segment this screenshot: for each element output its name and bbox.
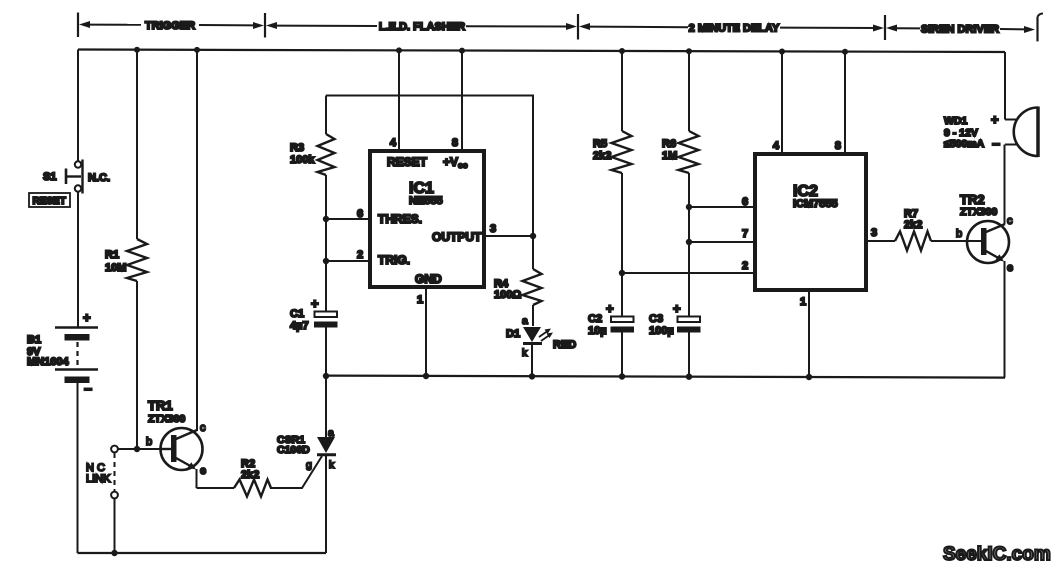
node R6 top [686,48,692,54]
svg-text:ZTX300: ZTX300 [148,413,186,425]
svg-text:OUTPUT: OUTPUT [432,230,482,244]
wire TR1 collector column [196,49,198,432]
svg-text:10M: 10M [105,262,126,274]
node R3/pin2 [323,258,329,264]
svg-text:10µ: 10µ [588,325,607,337]
svg-text:LINK: LINK [86,473,111,485]
svg-text:3: 3 [871,227,877,239]
svg-text:4: 4 [773,140,780,152]
node output junction [530,233,536,239]
wire S1 to battery [77,192,79,328]
svg-text:MN1604: MN1604 [27,356,69,368]
resistor R6 [679,50,699,316]
battery B1 [55,310,98,397]
svg-text:RESET: RESET [387,155,428,169]
svg-text:ICM7555: ICM7555 [793,198,838,210]
resistor R3 [318,96,335,312]
node R1/base junction [134,446,140,452]
svg-text:c: c [1007,215,1013,227]
svg-text:TR2: TR2 [960,192,985,207]
svg-text:−: − [84,381,92,397]
node R6/pin6 [686,204,692,210]
svg-text:100k: 100k [290,154,315,166]
resistor R7 [895,232,931,251]
wire R2 to CSR1 gate [270,456,322,488]
svg-text:SIREN DRIVER: SIREN DRIVER [921,24,999,36]
svg-text:WD1: WD1 [944,115,967,127]
wire TR1 emitter to R2 [197,487,235,489]
wire IC2 pin3 to R7 [868,240,895,242]
node IC1 pin8 top [459,48,465,54]
LED D1 [523,327,553,376]
node R3/pin6 [323,216,329,222]
node pin1 ground [423,373,429,379]
svg-text:k: k [522,347,528,359]
wire pin3 OUTPUT [486,235,533,237]
svg-text:S1: S1 [43,171,56,183]
resistor R5 [612,50,632,316]
svg-text:TR1: TR1 [148,398,173,413]
svg-text:2k2: 2k2 [904,219,922,231]
wire top supply rail [78,50,1005,53]
node IC2 pin8 top [842,49,848,55]
dimension line SIREN DRIVER section [885,14,1043,42]
svg-text:8: 8 [835,140,841,152]
node R5 top [619,48,625,54]
svg-text:a: a [522,315,528,327]
svg-text:b: b [146,436,152,448]
svg-text:k: k [329,459,335,471]
wire pin6 IC2 [689,206,753,208]
svg-text:+: + [673,301,681,316]
wire TR1 base with open terminal [111,446,160,453]
svg-text:3: 3 [490,223,496,235]
svg-text:NE555: NE555 [409,195,443,207]
node R1 top [134,47,140,53]
svg-text:+: + [991,112,999,127]
svg-text:TRIG.: TRIG. [378,253,410,267]
wire R7 to TR2 base [931,240,981,242]
svg-text:2k2: 2k2 [593,150,611,162]
svg-text:4: 4 [390,137,397,149]
capacitor C2 [606,301,634,377]
svg-text:2: 2 [742,260,748,272]
wire bottom rail [78,552,327,554]
svg-text:+: + [311,296,319,311]
wire pin2 IC2 [622,272,753,274]
node R5/pin2 [619,270,625,276]
svg-text:2k2: 2k2 [241,469,259,481]
resistor R1 [127,239,147,281]
svg-text:RED: RED [553,339,576,351]
capacitor C3 [673,301,701,377]
svg-text:100µ: 100µ [649,325,674,337]
wire pin7 IC2 [689,241,753,243]
node R6/pin7 [686,239,692,245]
transistor TR2 [967,221,1009,378]
svg-text:GND: GND [415,272,442,286]
svg-text:b: b [956,228,962,240]
svg-text:SeekIC.com: SeekIC.com [943,544,1051,565]
svg-text:R5: R5 [593,138,607,150]
resistor R2 [234,480,271,497]
dimension line L.E.D. FLASHER section [265,13,577,38]
svg-text:8: 8 [452,137,458,149]
svg-text:a: a [328,427,334,439]
wire R1 column [136,49,138,240]
wire IC2 pin1 to rail [808,290,810,377]
svg-text:RESET: RESET [33,196,66,207]
wire feedback top (R3 top to output column) [326,96,533,237]
svg-text:R1: R1 [105,249,119,261]
node C2 bottom [619,373,625,379]
node C3 bottom [686,374,692,380]
svg-text:C3: C3 [649,313,663,325]
svg-text:2: 2 [357,249,363,261]
svg-text:1: 1 [417,294,423,306]
label RESET boxed [29,193,70,207]
svg-text:B1: B1 [27,334,41,346]
svg-text:+Vcc: +Vcc [443,155,468,170]
svg-text:≤500mA: ≤500mA [944,138,985,150]
svg-text:C1: C1 [290,308,304,320]
svg-text:7: 7 [742,228,748,240]
capacitor C1 [311,296,338,376]
wire TR2 collector up to speaker [1004,145,1006,225]
wire IC2 pin8 [844,50,846,153]
timer IC2 box [755,154,866,290]
svg-text:g: g [306,459,312,471]
svg-text:ZTX300: ZTX300 [960,206,998,218]
N.C. LINK dashed link [111,453,118,553]
svg-text:1M: 1M [662,150,677,162]
svg-text:−: − [992,136,1000,152]
svg-text:N.C.: N.C. [88,172,110,184]
wire pin6 THRES [326,218,368,220]
svg-text:L.E.D. FLASHER: L.E.D. FLASHER [379,21,465,33]
node TR1 collector column top [194,47,200,53]
svg-text:4µ7: 4µ7 [290,320,309,332]
svg-text:D1: D1 [506,328,520,340]
node NC link bottom [111,550,117,556]
svg-text:e: e [200,465,206,477]
wire IC1 pin1 to rail [425,289,427,376]
svg-text:+: + [606,301,614,316]
wire pin2 TRIG [326,260,368,262]
node D1 bottom [529,373,535,379]
resistor R4 [523,236,542,326]
switch S1 [66,160,83,194]
svg-text:C106D: C106D [277,444,310,456]
svg-text:R6: R6 [662,138,676,150]
svg-text:2 MINUTE DELAY: 2 MINUTE DELAY [689,23,780,35]
wire IC2 pin4 [781,50,783,153]
svg-text:c: c [200,422,206,434]
svg-text:1: 1 [800,296,806,308]
op-amp/timer IC1 box [370,151,484,287]
thyristor CSR1 [317,376,336,553]
node IC2 pin4 top [779,49,785,55]
node IC2 pin1 ground [806,374,812,380]
sounder WD1 [991,52,1038,157]
svg-text:C2: C2 [588,313,602,325]
wire IC1 pin8 [461,49,463,151]
wire left rail down to S1 [77,50,79,162]
svg-text:+: + [83,310,91,325]
svg-text:THRES.: THRES. [378,212,422,226]
dimension line TRIGGER section [78,13,264,38]
svg-text:100Ω: 100Ω [494,289,521,301]
transistor TR1 [161,428,203,488]
wire mid ground rail [326,376,1005,378]
wire R1 to TR1 base [136,281,138,449]
node IC1 pin4 top [396,47,402,53]
wire battery to bottom rail [77,383,79,553]
wire IC1 pin4 [398,49,400,151]
svg-text:TRIGGER: TRIGGER [145,20,195,32]
dimension line 2 MINUTE DELAY section [578,14,884,40]
svg-text:R3: R3 [290,142,304,154]
svg-text:e: e [1007,262,1013,274]
node C1 bottom / mid rail left end [323,373,329,379]
